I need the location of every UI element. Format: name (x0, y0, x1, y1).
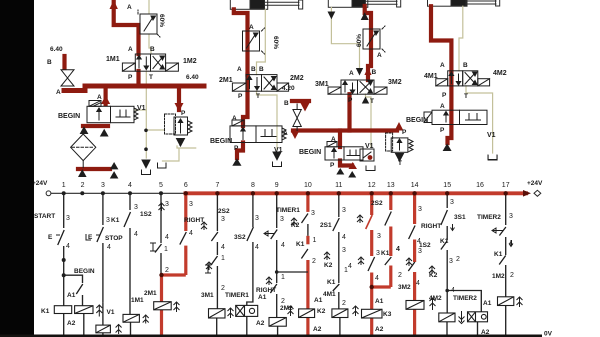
dark red supply lines group2 (234, 9, 248, 158)
solenoid coil 1M2 (498, 297, 514, 306)
svg-text:6: 6 (184, 182, 188, 189)
svg-text:V1: V1 (107, 309, 115, 316)
solenoid coil 3M1 (209, 309, 226, 318)
wire path4 to coil 1M1 (129, 228, 131, 314)
solenoid coil 2M2 (269, 318, 286, 327)
svg-text:B: B (259, 66, 264, 73)
svg-text:4: 4 (107, 244, 111, 251)
wire coil K2 to 0V (red) (306, 318, 309, 337)
valve 2V (2M1/2M2) (232, 75, 288, 92)
wire coil TIMER2 to 0V (477, 322, 479, 336)
svg-text:4: 4 (165, 234, 169, 241)
timer coil TIMER1 (236, 305, 258, 316)
svg-text:1M1: 1M1 (131, 297, 144, 304)
svg-text:A: A (440, 62, 445, 69)
check valve 6.40 (left) (61, 70, 74, 86)
svg-text:STOP: STOP (105, 235, 123, 242)
svg-text:4: 4 (189, 230, 193, 237)
red wire overlays (160, 193, 415, 336)
solenoid coil 4M2 (439, 313, 455, 322)
contact STOP pushbutton (path3) (97, 227, 104, 242)
pressure regulator 4 (386, 133, 413, 161)
svg-text:3M1: 3M1 (201, 292, 214, 299)
svg-text:17: 17 (502, 182, 510, 189)
svg-text:4: 4 (221, 244, 225, 251)
flow control 1 (138, 10, 160, 37)
svg-text:11: 11 (335, 182, 342, 189)
cylinder 3A (328, 0, 400, 7)
contact path9 lower (270, 284, 277, 293)
wire path6 lower (red) (184, 246, 187, 275)
svg-text:4: 4 (509, 240, 513, 247)
contact path4 NO (124, 212, 131, 227)
svg-text:+24V: +24V (32, 180, 48, 187)
svg-text:9: 9 (275, 182, 279, 189)
valve 4V (4M1/4M2) (436, 71, 490, 86)
flow control 3 (363, 26, 385, 52)
svg-text:A2: A2 (375, 326, 384, 333)
svg-text:V1: V1 (365, 143, 374, 150)
contact K1 (path11) (333, 284, 340, 291)
contact path7 lower (211, 256, 218, 265)
wire path14 middle (red) (413, 240, 416, 263)
contact K1 (path10) (301, 249, 308, 259)
svg-text:A: A (331, 136, 336, 143)
wire coil 2M1 to 0V (red) (160, 310, 163, 336)
tan tube group2 (257, 9, 278, 150)
svg-text:B: B (47, 59, 52, 66)
wire path12 upper (red) (370, 193, 373, 215)
svg-text:2M1: 2M1 (219, 77, 233, 84)
svg-text:K1: K1 (327, 279, 336, 286)
svg-text:K1: K1 (296, 241, 305, 248)
wire coil 4M2 to 0V (446, 322, 448, 336)
svg-text:A: A (237, 66, 242, 73)
contact 1S2 limit switch (path5) (155, 244, 162, 253)
svg-text:4: 4 (342, 234, 346, 241)
filter (71, 134, 96, 168)
wire path8 upper (252, 193, 254, 227)
svg-text:B: B (284, 100, 289, 107)
contact K1 (path12) (368, 257, 375, 271)
svg-text:10: 10 (304, 182, 312, 189)
svg-text:B: B (251, 66, 256, 73)
svg-text:TIMER2: TIMER2 (477, 214, 501, 221)
wire path10 black segment (307, 224, 309, 236)
contact 2S2 path12 (red, closed) (366, 215, 373, 229)
wire path4 upper (129, 193, 131, 210)
tan tube group4 (459, 6, 493, 153)
svg-text:3M1: 3M1 (315, 81, 329, 88)
svg-text:4: 4 (128, 182, 132, 189)
wire path13 lower (red) (389, 266, 392, 288)
flow control 2 (243, 28, 265, 54)
wire path13 middle (red) (389, 227, 392, 257)
svg-text:RIGHT: RIGHT (256, 287, 276, 294)
svg-text:START: START (34, 213, 55, 220)
svg-text:4: 4 (255, 244, 259, 251)
BEGIN valve 3 (325, 142, 363, 161)
svg-text:1: 1 (164, 246, 168, 253)
wire path11 upper (338, 193, 340, 217)
wire path7 middle (216, 242, 218, 255)
solenoid coil 3M2 (406, 301, 424, 310)
wire coil K3 to 0V (red) (370, 318, 373, 336)
svg-text:K1: K1 (440, 238, 449, 245)
junction dots (62, 191, 449, 292)
svg-text:P: P (442, 92, 447, 99)
cylinder 4A (428, 0, 500, 6)
svg-text:1: 1 (281, 274, 285, 281)
svg-text:2S2: 2S2 (218, 208, 230, 215)
left letterbox bar (0, 0, 34, 337)
wire BEGIN branch path2 (64, 275, 83, 283)
svg-text:BEGIN: BEGIN (299, 149, 321, 156)
contact BEGIN (path2) (76, 284, 83, 294)
svg-text:A1: A1 (375, 298, 384, 305)
svg-text:RIGHT: RIGHT (184, 217, 204, 224)
svg-text:P: P (348, 97, 353, 104)
wire path5 lower (160, 253, 162, 275)
svg-text:3: 3 (311, 210, 315, 217)
wire path13 upper (red) (389, 193, 392, 210)
contact K2 (path10) (302, 214, 309, 224)
wire coil 1M2 to 0V (505, 306, 507, 337)
svg-text:3: 3 (134, 204, 138, 211)
svg-text:P: P (238, 93, 243, 100)
svg-text:V1: V1 (487, 132, 496, 139)
svg-text:4: 4 (348, 263, 352, 270)
svg-text:3: 3 (342, 247, 346, 254)
svg-text:14: 14 (411, 182, 419, 189)
svg-text:BEGIN: BEGIN (406, 117, 428, 124)
svg-text:3: 3 (221, 216, 225, 223)
wire coil TIMER1 to 0V (246, 316, 248, 336)
svg-text:4: 4 (451, 287, 455, 294)
wire path3 to 0V (102, 333, 104, 336)
svg-text:6.40: 6.40 (50, 46, 63, 53)
svg-text:K2: K2 (429, 272, 438, 279)
contact RIGHT (path14) (409, 226, 416, 240)
wire path1 to coil K1 (63, 246, 65, 306)
contact K1 (path17) (499, 256, 506, 265)
wire path10 upper (red) (306, 193, 309, 212)
svg-text:K1: K1 (111, 217, 120, 224)
svg-text:7: 7 (215, 182, 219, 189)
+24V rail (51, 192, 184, 194)
dark red supply lines group4 (431, 6, 451, 143)
svg-text:3: 3 (101, 182, 105, 189)
black wires (64, 193, 506, 336)
rail numbers (62, 182, 510, 189)
svg-text:4M1: 4M1 (424, 73, 438, 80)
svg-text:2: 2 (342, 300, 346, 307)
wire path15 to coil 4M2 (446, 250, 448, 313)
V1 cutoff valve group3 (360, 149, 375, 171)
wire path2 to coil (82, 295, 84, 306)
svg-text:2: 2 (165, 267, 169, 274)
wire path15 middle (446, 226, 448, 240)
svg-text:P: P (181, 110, 186, 117)
svg-text:15: 15 (443, 182, 451, 189)
wire coil 3M2 to 0V (red) (413, 309, 416, 336)
svg-text:P: P (440, 127, 445, 134)
svg-text:P: P (128, 74, 133, 81)
svg-text:1: 1 (313, 237, 317, 244)
svg-text:T: T (398, 160, 402, 167)
svg-text:K2: K2 (291, 222, 300, 229)
valve 3V (3M1/3M2) (328, 80, 387, 94)
svg-text:TIMER1: TIMER1 (225, 292, 249, 299)
solenoid coil 4M1 (332, 309, 348, 318)
wire path12 to coil K3 (red) (370, 273, 373, 310)
contact diagonals (58, 210, 506, 294)
wire coil 4M1 to 0V (339, 318, 341, 337)
svg-text:60%: 60% (356, 34, 363, 47)
svg-text:60%: 60% (272, 36, 279, 49)
timer coils (236, 305, 488, 321)
contact path13 upper (385, 212, 392, 226)
wire path6-to-path5 link (red) (160, 273, 186, 276)
svg-text:0V: 0V (544, 331, 553, 337)
svg-text:2M1: 2M1 (144, 290, 157, 297)
pushbutton / actuator marks (56, 224, 513, 273)
wire path6 upper (red) (184, 193, 187, 231)
wire path3 between coils (102, 303, 104, 326)
wire coil 1M1 to 0V (130, 322, 132, 336)
svg-text:1M1: 1M1 (106, 56, 120, 63)
svg-text:K1: K1 (494, 251, 503, 258)
wire path9 upper (276, 193, 278, 228)
dark red supply lines group3 + main line (292, 6, 397, 166)
svg-text:3: 3 (450, 199, 454, 206)
svg-text:BEGIN: BEGIN (58, 113, 80, 120)
valve 1V (1M1/1M2) (122, 54, 178, 71)
wire path10 to coil K2 (red) (306, 260, 309, 309)
svg-text:3M2: 3M2 (398, 284, 411, 291)
svg-text:13: 13 (387, 182, 395, 189)
small up-chevron marks (159, 203, 436, 285)
wire path15-path16 branch to TIMER2 (447, 291, 481, 312)
contact K1 (path15) (441, 241, 448, 250)
contact 3S2 (path8) (247, 227, 254, 241)
wire coil K1 to 0V (63, 314, 65, 337)
wire path17 middle (505, 237, 507, 255)
svg-text:3S2: 3S2 (234, 234, 246, 241)
svg-text:3: 3 (418, 248, 422, 255)
wire path9-path10 link (277, 271, 308, 273)
svg-text:3: 3 (377, 233, 381, 240)
contact TIMER2 (path17) (499, 227, 506, 236)
svg-text:E: E (88, 234, 93, 241)
svg-text:4: 4 (416, 280, 420, 287)
svg-text:3: 3 (376, 250, 380, 257)
timer coil TIMER2 (468, 312, 488, 322)
red arrows/triangles (101, 68, 403, 170)
wire path7 to coil 3M1 (216, 266, 218, 309)
svg-text:A1: A1 (314, 297, 323, 304)
wire path15 upper (446, 193, 448, 208)
svg-text:T: T (370, 98, 374, 105)
relay coil K3 (362, 309, 383, 318)
dark red supply lines group1 (64, 0, 204, 169)
wire path12 middle (red) (370, 230, 373, 256)
wire path14 upper (red) (413, 193, 416, 224)
svg-text:2: 2 (221, 285, 225, 292)
wire path2 coil to 0V (83, 314, 85, 337)
svg-text:A1: A1 (67, 292, 76, 299)
svg-text:3: 3 (509, 213, 513, 220)
wire path14 to coil 3M2 (red) (413, 272, 416, 301)
wire path3 upper (102, 193, 104, 225)
contact 2S2 (path7) (211, 232, 218, 241)
svg-text:4M1: 4M1 (323, 291, 336, 298)
svg-text:K2: K2 (317, 308, 326, 315)
svg-text:2S2: 2S2 (371, 200, 383, 207)
svg-text:1M2: 1M2 (492, 273, 505, 280)
svg-text:2: 2 (81, 182, 85, 189)
svg-text:2M2: 2M2 (290, 75, 304, 82)
svg-text:BEGIN: BEGIN (74, 268, 95, 275)
wire path9 to coil 2M2 (276, 294, 278, 318)
svg-text:A: A (440, 103, 445, 110)
svg-text:B: B (150, 46, 155, 53)
svg-text:P: P (234, 145, 239, 152)
contact START pushbutton NO (path1) (58, 230, 64, 245)
svg-text:3: 3 (280, 216, 284, 223)
contact 2S1 (path11) (333, 218, 340, 231)
svg-text:4: 4 (66, 243, 70, 250)
relay coil K1 (54, 306, 71, 314)
svg-text:T: T (464, 93, 468, 100)
svg-text:T: T (149, 74, 153, 81)
contact RIGHT (path6) (180, 232, 187, 245)
wire path3 middle (102, 243, 104, 303)
svg-text:BEGIN: BEGIN (210, 138, 232, 145)
svg-text:TIMER1: TIMER1 (276, 207, 300, 214)
svg-text:RIGHT: RIGHT (421, 223, 441, 230)
svg-text:A: A (249, 24, 254, 31)
solenoid indicator double-arrows (96, 297, 522, 334)
svg-text:K1: K1 (41, 308, 50, 315)
svg-text:3: 3 (165, 201, 169, 208)
svg-text:B: B (463, 62, 468, 69)
svg-text:A2: A2 (256, 320, 265, 327)
svg-text:2: 2 (510, 272, 514, 279)
svg-text:4M2: 4M2 (493, 70, 507, 77)
svg-text:2S1: 2S1 (320, 222, 332, 229)
BEGIN valve 4 (424, 110, 487, 124)
svg-text:60%: 60% (158, 14, 165, 27)
solenoid coil V1 (96, 325, 111, 333)
svg-text:3: 3 (255, 215, 259, 222)
wire path5 upper (160, 193, 162, 243)
contact 1S2 (path14) (408, 262, 415, 271)
svg-text:4M2: 4M2 (429, 295, 442, 302)
svg-text:3M2: 3M2 (388, 79, 402, 86)
svg-text:A2: A2 (313, 326, 322, 333)
svg-text:A: A (232, 115, 237, 122)
wire path5 to coil 2M1 (red) (160, 275, 163, 302)
solenoid coil 2M1 (154, 302, 172, 310)
wire path17 to coil 1M2 (505, 265, 507, 297)
svg-text:P: P (402, 129, 407, 136)
svg-text:12: 12 (368, 182, 376, 189)
svg-text:A: A (56, 89, 61, 96)
pressure regulator 1 (165, 114, 193, 146)
svg-text:V1: V1 (137, 105, 146, 112)
svg-text:K2: K2 (324, 262, 333, 269)
svg-text:1S2: 1S2 (140, 211, 152, 218)
wire path7 upper (216, 193, 218, 231)
contact path13 lower (385, 257, 392, 265)
wire path11 middle (338, 232, 340, 283)
coil path2 (75, 306, 93, 314)
svg-text:2: 2 (398, 272, 402, 279)
svg-text:A: A (127, 4, 132, 11)
BEGIN valve 2 (230, 120, 286, 143)
svg-text:3: 3 (189, 201, 193, 208)
svg-text:6.40: 6.40 (186, 74, 199, 81)
svg-text:A: A (128, 46, 133, 53)
svg-text:A: A (97, 94, 102, 101)
contact 3S1 (path15) (441, 210, 448, 225)
exhausts / dots on tan lines (142, 156, 498, 175)
contact TIMER1 (path9) (271, 230, 278, 240)
svg-text:A: A (377, 52, 382, 59)
svg-text:1M2: 1M2 (183, 58, 197, 65)
svg-text:3: 3 (342, 207, 346, 214)
svg-text:5: 5 (159, 182, 163, 189)
tan tube group3 (331, 7, 371, 147)
tan tube group1 flow-control to cylinder1 (134, 0, 196, 161)
svg-text:K3: K3 (383, 311, 392, 318)
wire coil 2M2 to 0V (277, 326, 279, 336)
svg-text:P: P (330, 162, 335, 169)
svg-text:E: E (48, 234, 53, 241)
svg-text:2: 2 (456, 256, 460, 263)
svg-text:4: 4 (134, 231, 138, 238)
svg-text:A: A (349, 70, 354, 77)
relay coil K2 (299, 309, 315, 318)
solenoid coil 1M1 (123, 314, 139, 322)
wire path10 middle (red) (306, 236, 309, 245)
svg-text:4: 4 (396, 246, 400, 253)
svg-text:A1: A1 (258, 294, 267, 301)
svg-text:2: 2 (281, 298, 285, 305)
BEGIN valve 1 (87, 101, 138, 123)
svg-text:3: 3 (66, 215, 70, 222)
svg-text:2: 2 (312, 258, 316, 265)
svg-text:2M2: 2M2 (280, 305, 293, 312)
svg-text:8: 8 (251, 182, 255, 189)
svg-text:3: 3 (106, 217, 110, 224)
svg-text:T: T (178, 141, 182, 148)
svg-text:4: 4 (281, 242, 285, 249)
ladder labels (34, 199, 514, 336)
svg-text:A1: A1 (483, 300, 492, 307)
wire path17 upper (505, 193, 507, 225)
svg-text:T: T (256, 93, 260, 100)
wire path8 to coil TIMER1 (247, 242, 253, 305)
cylinder 2A (230, 0, 302, 9)
svg-text:TIMER2: TIMER2 (453, 295, 477, 302)
svg-text:16: 16 (476, 182, 484, 189)
wire coil 3M1 to 0V (216, 318, 218, 336)
svg-text:+24V: +24V (527, 180, 543, 187)
svg-text:K1: K1 (381, 250, 390, 257)
svg-text:B: B (372, 69, 377, 76)
